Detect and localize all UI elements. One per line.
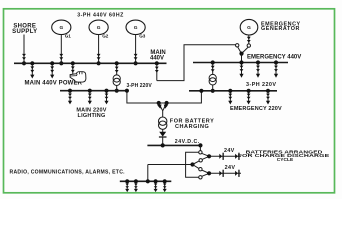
feeder emerg220 3 xyxy=(266,89,270,105)
hand cursor xyxy=(70,72,86,82)
wire emergency transformer to 220 bus xyxy=(212,85,214,91)
feeder main220 3 xyxy=(104,89,108,105)
wire interconnector horizontal low xyxy=(157,45,236,81)
battery charger changeover V xyxy=(159,103,163,111)
transformer main drop wire xyxy=(116,63,118,75)
blade battery1 charge xyxy=(202,153,210,156)
svg-text:G2: G2 xyxy=(102,34,109,39)
breaker G1 xyxy=(59,54,63,60)
emergency 440V busbar xyxy=(193,62,288,64)
main 220V busbar xyxy=(60,90,127,92)
breaker above main transformer xyxy=(115,67,119,70)
switch contact 3 xyxy=(199,168,202,171)
feeder emerg220 2 xyxy=(247,89,251,105)
battery1 wire xyxy=(209,155,241,157)
svg-text:24V: 24V xyxy=(225,165,236,171)
generator G3 xyxy=(126,20,146,39)
breaker shore supply xyxy=(22,54,26,60)
svg-text:EMERGENCY 440V: EMERGENCY 440V xyxy=(247,54,301,60)
svg-text:24V: 24V xyxy=(224,148,235,154)
breaker above emergency transformer xyxy=(211,66,215,69)
tie wire main220 to emerg220 xyxy=(127,91,201,103)
svg-text:24V.D.C.: 24V.D.C. xyxy=(175,139,200,145)
svg-text:MAIN 440V POWER: MAIN 440V POWER xyxy=(25,80,83,86)
feeder radio 1 xyxy=(125,179,129,192)
svg-text:CHARGING: CHARGING xyxy=(175,124,209,130)
svg-text:440V: 440V xyxy=(150,55,164,61)
svg-text:3-PH 440V 60HZ: 3-PH 440V 60HZ xyxy=(77,12,124,18)
svg-text:RADIO, COMMUNICATIONS, ALARMS,: RADIO, COMMUNICATIONS, ALARMS, ETC. xyxy=(10,170,126,176)
breaker G2 xyxy=(97,54,101,60)
wire transformer to 220 bus xyxy=(116,85,118,90)
feeder emerg440 3 xyxy=(274,60,278,77)
blade battery2 charge xyxy=(202,173,210,176)
battery2 node xyxy=(207,171,211,175)
green frame border xyxy=(4,9,335,193)
24V DC busbar xyxy=(147,144,202,146)
feeder main440 1 xyxy=(30,61,34,78)
feeder main440 3 xyxy=(71,61,75,78)
breaker emergency gen xyxy=(247,37,251,40)
wire diode to 24V bus xyxy=(162,137,164,145)
wire V to charger transformer xyxy=(162,111,164,117)
load node wire from radio section xyxy=(148,164,193,166)
battery switch frame xyxy=(186,152,199,177)
changeover switch left contact xyxy=(236,44,239,47)
svg-text:G3: G3 xyxy=(139,34,146,39)
feeder main440 2 xyxy=(50,61,54,78)
changeover switch right contact xyxy=(247,44,250,47)
switch contact 2 xyxy=(199,159,202,162)
radio feed wire xyxy=(147,165,149,182)
wire G3 drop xyxy=(135,35,137,64)
breaker interconnector xyxy=(155,67,159,70)
breaker G3 xyxy=(134,54,138,60)
emergency gen drop xyxy=(248,35,250,44)
switch contact 1 xyxy=(199,151,202,154)
svg-text:GENERATOR: GENERATOR xyxy=(261,26,300,32)
emergency generator xyxy=(240,19,258,35)
feeder radio 4 xyxy=(163,179,167,192)
wire transformer to diode xyxy=(162,129,164,132)
emergency 220V busbar xyxy=(189,90,277,92)
svg-text:SUPPLY: SUPPLY xyxy=(12,29,37,35)
blade battery2 discharge xyxy=(202,170,210,173)
wire 24V bus to battery switch xyxy=(199,145,201,150)
transformer emergency drop wire xyxy=(212,63,214,75)
svg-text:G: G xyxy=(247,25,251,31)
feeder main220 2 xyxy=(88,89,92,105)
svg-text:3-PH 220V: 3-PH 220V xyxy=(127,83,153,89)
feeder emerg220 1 xyxy=(228,89,232,105)
blade battery1 discharge xyxy=(202,156,209,159)
transformer emergency 440/220 xyxy=(209,74,216,85)
wire G1 drop xyxy=(60,35,62,64)
generator G1 xyxy=(52,20,72,39)
wire switch to emergency bus xyxy=(241,54,243,63)
main 440V busbar xyxy=(14,62,167,64)
radio 24V busbar xyxy=(120,180,172,182)
generator G2 xyxy=(89,20,109,39)
transformer main 440/220 xyxy=(113,75,120,86)
changeover switch blades xyxy=(238,47,242,54)
interconnector drop from main bus xyxy=(155,61,159,65)
feeder emerg440 1 xyxy=(239,60,243,77)
battery2 wire xyxy=(209,172,241,174)
charger transformer xyxy=(159,117,167,125)
battery charger tap dots xyxy=(157,101,161,105)
svg-text:CYCLE: CYCLE xyxy=(277,157,294,162)
battery1 node xyxy=(207,154,211,158)
wire G2 drop xyxy=(98,35,100,64)
diode rectifier xyxy=(159,132,166,137)
feeder radio 3 xyxy=(154,179,158,192)
wire shore supply drop xyxy=(23,35,25,64)
battery1 cells xyxy=(219,153,224,160)
feeder emerg440 2 xyxy=(256,60,260,77)
svg-text:EMERGENCY 220V: EMERGENCY 220V xyxy=(230,106,282,112)
changeover switch common xyxy=(239,52,243,56)
feeder radio 2 xyxy=(134,179,138,192)
switch contact 4 xyxy=(199,176,202,179)
svg-text:G1: G1 xyxy=(65,34,72,39)
svg-text:LIGHTING: LIGHTING xyxy=(78,113,106,119)
feeder main220 1 xyxy=(68,89,72,105)
battery2 cells xyxy=(219,170,224,177)
svg-text:3-PH 220V: 3-PH 220V xyxy=(246,82,276,88)
load node stubs xyxy=(193,161,200,165)
